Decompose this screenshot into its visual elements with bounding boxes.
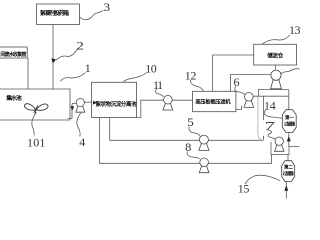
label 5 leader: [189, 127, 200, 137]
pump P5: [199, 135, 209, 150]
wire: filter press right outlet: [236, 106, 242, 110]
svg-text:10: 10: [145, 61, 157, 75]
pump P11: [163, 95, 173, 110]
wire: basin bottom outlet to pump 11: [137, 100, 164, 117]
wire: pump 4 to separation basin: [84, 101, 91, 103]
label 2 leader: [56, 50, 77, 61]
pump under sludge bin: [271, 70, 282, 89]
svg-text:过滤器: 过滤器: [283, 170, 295, 177]
pump P7: [275, 137, 285, 151]
label 1 leader: [61, 73, 86, 82]
label 101 leader: [32, 113, 37, 136]
svg-text:13: 13: [289, 23, 300, 37]
arrow on pump4 suction: [70, 106, 74, 111]
label 15 leader: [245, 175, 280, 184]
wire: filter press top to sludge pump line: [231, 74, 271, 91]
label 7 leader: [266, 129, 275, 138]
svg-text:4: 4: [79, 135, 85, 149]
wire: riser to first filter (upper part): [262, 96, 264, 120]
wire: sludge bin down to pump: [275, 65, 277, 69]
wire: dosing pipe down to collecting tank: [52, 24, 54, 89]
wire: pump6 line to first filter riser: [253, 95, 289, 97]
label 6 leader: [235, 86, 245, 95]
arrow up into first filter: [287, 136, 291, 141]
pump P8: [199, 158, 209, 173]
wire: tank suction to pump 4: [68, 103, 77, 118]
wire+arrow below second filter: [285, 182, 287, 199]
flocculant dosing tank box 3: [37, 4, 80, 24]
svg-text:1: 1: [85, 61, 91, 75]
wire: pump discharge wavy to right edge: [280, 69, 299, 74]
wire: down to first filter top: [288, 90, 290, 110]
svg-text:集水池: 集水池: [5, 94, 22, 102]
svg-text:6: 6: [234, 75, 240, 89]
wire: basin bottom to pump 5 line: [110, 118, 200, 141]
sludge storage bin 13: [254, 44, 297, 65]
svg-text:间废水收集管: 间废水收集管: [0, 51, 26, 58]
svg-text:5: 5: [187, 115, 194, 129]
wire+arrow below first filter: [289, 133, 300, 147]
svg-text:11: 11: [153, 78, 163, 92]
arrow up into second filter: [284, 185, 288, 191]
label 14 leader: [264, 110, 282, 119]
arrow into basin: [93, 101, 97, 105]
waste water collection pipe box 2: [0, 47, 27, 58]
label 12 leader: [190, 80, 203, 91]
agitator 101 (propeller): [24, 104, 48, 114]
svg-text:第二: 第二: [284, 164, 293, 171]
svg-text:14: 14: [264, 98, 276, 112]
first filter 14 (octagon): [282, 110, 296, 133]
svg-text:过滤器: 过滤器: [284, 121, 296, 128]
svg-text:12: 12: [185, 69, 197, 83]
second filter 15 (octagon): [282, 161, 295, 182]
pump P4 (lift pump): [76, 98, 85, 112]
faint pipe ghost: [258, 96, 261, 139]
collecting tank 1 (box): [0, 89, 70, 120]
pump P6: [244, 93, 254, 108]
label 10 leader: [124, 73, 147, 82]
arrow on dosing pipe: [51, 58, 56, 63]
wire: pump 11 to filter press: [172, 99, 192, 101]
flocculent sedimentation separation basin 10: [92, 82, 137, 117]
wire: pump 8 to pump7 pit: [208, 155, 271, 164]
pump P7 pit enclosure: [271, 142, 289, 155]
svg-text:高压板框压滤机: 高压板框压滤机: [195, 98, 231, 106]
wire: upper bypass line: [258, 90, 288, 97]
svg-text:2: 2: [76, 38, 84, 52]
wire: filter press up to sludge bin: [213, 55, 254, 91]
svg-text:絮状物沉淀分离池: 絮状物沉淀分离池: [96, 100, 138, 108]
svg-text:101: 101: [27, 135, 46, 149]
label 4 leader: [77, 113, 81, 137]
svg-text:储泥仓: 储泥仓: [266, 51, 283, 59]
wire: basin bottom to pump 8 line: [100, 118, 200, 164]
wire: pit down to second filter: [287, 155, 289, 161]
svg-text:3: 3: [103, 0, 110, 14]
svg-text:15: 15: [238, 181, 250, 195]
svg-text:第一: 第一: [285, 114, 294, 121]
label 3 leader: [80, 10, 104, 19]
wire: riser lower stub: [262, 136, 264, 141]
wire: pump 5 to riser: [208, 139, 263, 141]
label 13 leader: [262, 35, 290, 44]
high pressure plate-frame filter press 12: [193, 91, 236, 111]
svg-text:8: 8: [185, 140, 191, 154]
svg-text:絮凝剂投药箱: 絮凝剂投药箱: [40, 9, 69, 17]
wire: collection pipe down to collecting tank: [27, 58, 29, 89]
label 11 leader: [156, 89, 164, 97]
label 8 leader: [187, 151, 200, 158]
